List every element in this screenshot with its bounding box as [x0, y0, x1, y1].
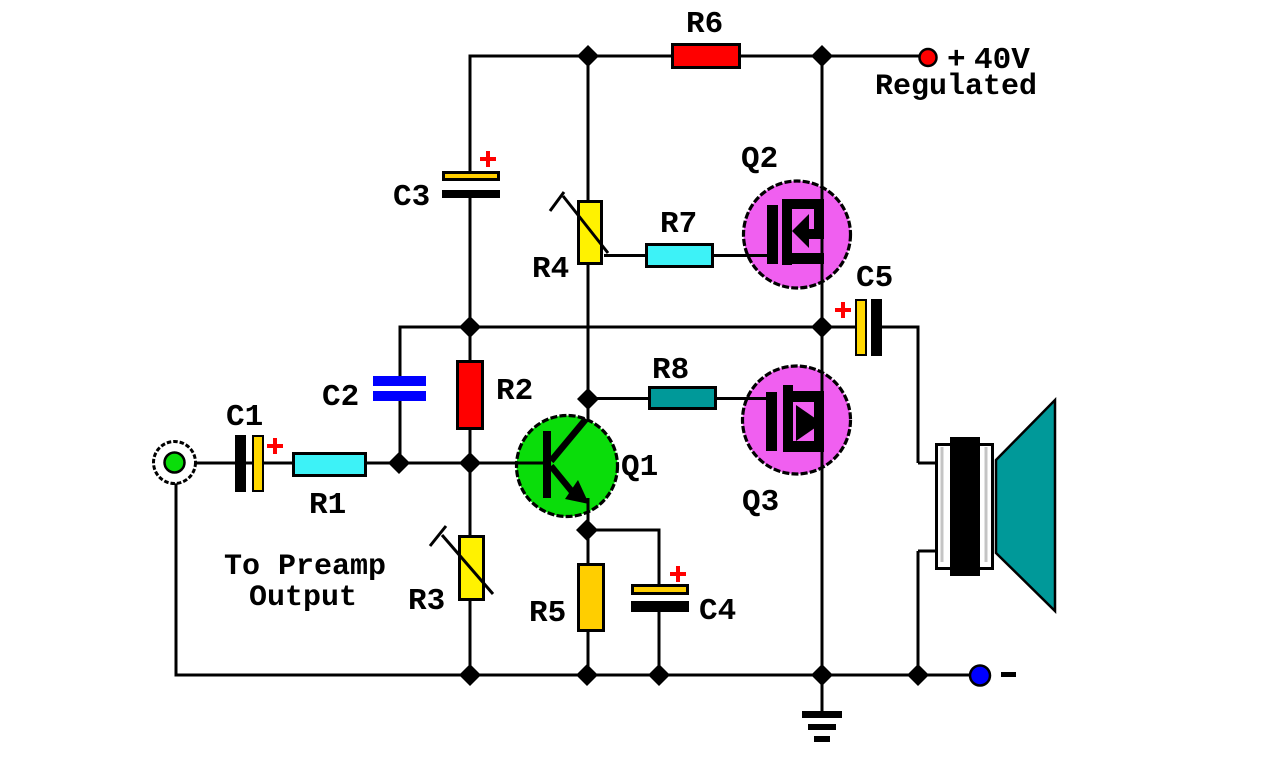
svg-text:R4: R4 — [532, 252, 569, 287]
svg-text:C1: C1 — [226, 400, 263, 435]
svg-text:R8: R8 — [652, 353, 689, 388]
svg-text:C4: C4 — [699, 594, 736, 629]
svg-text:R2: R2 — [496, 374, 533, 409]
svg-text:C2: C2 — [322, 380, 359, 415]
svg-text:Q3: Q3 — [742, 485, 779, 520]
svg-text:C5: C5 — [856, 261, 893, 296]
svg-text:R3: R3 — [408, 584, 445, 619]
svg-text:Output: Output — [249, 581, 357, 615]
svg-text:Q2: Q2 — [741, 142, 778, 177]
svg-text:To Preamp: To Preamp — [224, 550, 386, 584]
svg-text:R1: R1 — [309, 488, 346, 523]
svg-text:C3: C3 — [393, 180, 430, 215]
svg-text:Q1: Q1 — [621, 450, 658, 485]
svg-text:Regulated: Regulated — [875, 70, 1037, 104]
svg-text:R5: R5 — [529, 596, 566, 631]
svg-text:R6: R6 — [686, 7, 723, 42]
svg-text:R7: R7 — [660, 207, 697, 242]
